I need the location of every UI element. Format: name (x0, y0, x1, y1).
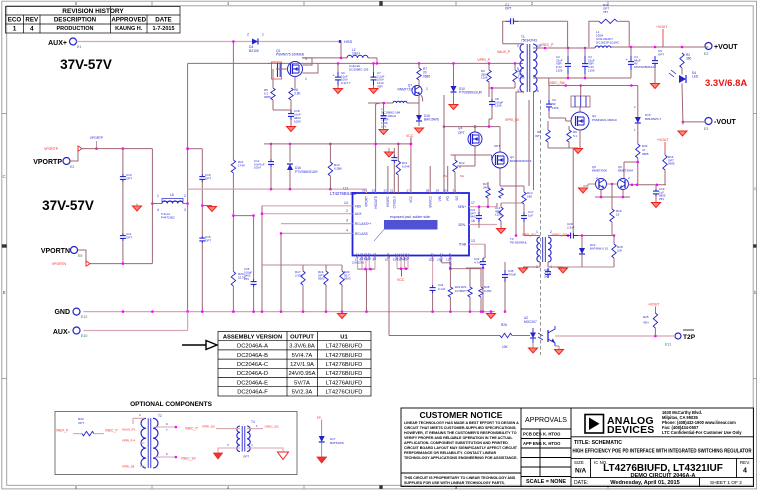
svg-text:3.3K: 3.3K (294, 92, 301, 96)
svg-text:R25: R25 (643, 315, 649, 319)
svg-text:5V/4.7A: 5V/4.7A (292, 353, 313, 359)
svg-text:10: 10 (385, 258, 389, 262)
svg-text:4: 4 (30, 26, 34, 33)
svg-text:6.04K: 6.04K (402, 164, 410, 168)
svg-text:SIZE: SIZE (574, 460, 584, 465)
svg-text:+VOUT: +VOUT (656, 25, 667, 29)
svg-text:25V: 25V (244, 277, 249, 281)
svg-text:LT4276BIUFD: LT4276BIUFD (330, 191, 356, 196)
svg-text:16: 16 (471, 219, 475, 223)
svg-text:2: 2 (247, 33, 249, 37)
svg-text:0402: 0402 (470, 215, 477, 219)
svg-text:VPORTN: VPORTN (41, 248, 70, 255)
svg-text:E9: E9 (78, 254, 82, 258)
svg-text:DO1988C-103: DO1988C-103 (349, 67, 369, 71)
svg-text:VPRI_P: VPRI_P (477, 58, 490, 62)
svg-text:DC2046A-B: DC2046A-B (237, 353, 268, 359)
svg-text:E10: E10 (81, 334, 87, 338)
svg-text:OPT: OPT (494, 144, 500, 148)
svg-text:T2: T2 (158, 414, 162, 418)
svg-text:LTC Confidential-For Customer: LTC Confidential-For Customer Use Only (662, 430, 742, 435)
svg-text:LT4276AIUFD: LT4276AIUFD (326, 380, 363, 386)
svg-text:PG: PG (446, 195, 450, 200)
svg-text:DC2046A-E: DC2046A-E (237, 380, 268, 386)
svg-text:SHEET 1 OF 2: SHEET 1 OF 2 (710, 480, 742, 486)
svg-text:17: 17 (471, 201, 475, 205)
svg-text:APPLICATION. COMPONENT SUBSTI: APPLICATION. COMPONENT SUBSTITUTION AND … (404, 441, 508, 445)
svg-text:T2P: T2P (683, 334, 696, 341)
svg-text:VCC: VCC (406, 134, 414, 138)
svg-text:6.3x7.7: 6.3x7.7 (341, 81, 351, 85)
svg-text:VPORTP: VPORTP (44, 147, 59, 151)
svg-text:OPT: OPT (505, 7, 512, 11)
svg-text:VPRI_SG: VPRI_SG (202, 425, 216, 429)
svg-text:E1: E1 (77, 45, 81, 49)
svg-text:VPORTN: VPORTN (52, 262, 67, 266)
svg-text:1206: 1206 (495, 104, 502, 108)
svg-text:E3: E3 (704, 127, 708, 131)
svg-text:5.1: 5.1 (573, 134, 577, 138)
svg-text:PE-65099NL: PE-65099NL (510, 240, 528, 244)
svg-text:+VOUT: +VOUT (648, 303, 659, 307)
svg-text:BSZ900N20NS3: BSZ900N20NS3 (510, 159, 532, 163)
svg-text:1: 1 (13, 26, 17, 33)
svg-text:9.25K: 9.25K (484, 289, 492, 293)
svg-text:THIS CIRCUIT IS PROPRIETARY TO: THIS CIRCUIT IS PROPRIETARY TO LINEAR TE… (404, 476, 516, 480)
svg-text:E2: E2 (70, 165, 74, 169)
svg-text:APPROVALS: APPROVALS (525, 417, 567, 424)
svg-text:C: C (3, 174, 6, 179)
svg-text:1206: 1206 (552, 106, 559, 110)
svg-text:ITHB: ITHB (459, 243, 466, 247)
svg-text:Wednesday, April 01, 2015: Wednesday, April 01, 2015 (610, 480, 680, 486)
svg-text:22: 22 (384, 189, 388, 193)
svg-text:LINEAR TECHNOLOGY HAS MADE A B: LINEAR TECHNOLOGY HAS MADE A BEST EFFORT… (404, 421, 519, 425)
svg-text:K. HTOO: K. HTOO (543, 441, 561, 446)
svg-text:LT4276CIUFD: LT4276CIUFD (326, 390, 363, 396)
svg-text:24V/0.95A: 24V/0.95A (288, 371, 315, 377)
svg-text:OPT: OPT (461, 289, 467, 293)
svg-text:1-7-2015: 1-7-2015 (152, 26, 174, 32)
svg-text:R26: R26 (501, 323, 507, 327)
svg-text:c: c (754, 186, 756, 191)
svg-text:360: 360 (686, 57, 692, 61)
svg-text:-VOUT: -VOUT (714, 119, 737, 126)
svg-text:VCC: VCC (397, 278, 405, 282)
svg-text:VAUX_P1: VAUX_P1 (122, 428, 136, 432)
svg-text:CIRCUIT BOARD LAYOUT MAY SIGNI: CIRCUIT BOARD LAYOUT MAY SIGNIFICANTLY A… (404, 446, 518, 450)
svg-text:DC2046A-A: DC2046A-A (237, 344, 268, 350)
svg-text:15: 15 (437, 258, 441, 262)
svg-text:OPT: OPT (205, 238, 211, 242)
svg-text:1206: 1206 (588, 68, 595, 72)
svg-text:LT4276BIUFD: LT4276BIUFD (326, 371, 363, 377)
svg-text:3.3V/6.8A: 3.3V/6.8A (705, 78, 747, 89)
svg-text:0685: 0685 (642, 152, 649, 156)
svg-text:VPORT: VPORT (365, 196, 369, 207)
svg-text:PSMN075-100MSB: PSMN075-100MSB (276, 53, 304, 57)
svg-text:REV: REV (25, 17, 39, 24)
svg-text:3: 3 (184, 208, 186, 212)
svg-text:SUPPLIED FOR USE WITH LINEAR T: SUPPLIED FOR USE WITH LINEAR TECHNOLOGY … (404, 481, 505, 485)
svg-text:30: 30 (443, 189, 447, 193)
svg-text:2.2nF: 2.2nF (567, 225, 575, 229)
svg-text:L5: L5 (170, 193, 174, 197)
svg-text:0.1uF: 0.1uF (438, 287, 446, 291)
svg-text:14: 14 (344, 201, 348, 205)
svg-text:VERIFY PROPER AND RELIABLE OPE: VERIFY PROPER AND RELIABLE OPERATION IN … (404, 436, 513, 440)
svg-text:BAT46W,U 15: BAT46W,U 15 (590, 246, 608, 250)
svg-text:21: 21 (390, 189, 394, 193)
svg-text:E2: E2 (704, 52, 708, 56)
svg-text:SCALE = NONE: SCALE = NONE (526, 479, 566, 485)
svg-text:DATE:: DATE: (574, 480, 588, 486)
svg-text:5V/7A: 5V/7A (294, 380, 310, 386)
svg-text:RCLASS: RCLASS (355, 232, 368, 236)
svg-text:31: 31 (453, 189, 457, 193)
svg-text:0685: 0685 (423, 74, 430, 78)
svg-text:VSEC_P: VSEC_P (105, 429, 118, 433)
svg-text:REVISION HISTORY: REVISION HISTORY (62, 8, 124, 15)
svg-text:exposed pad, solder side: exposed pad, solder side (390, 215, 430, 219)
svg-text:CIRCUIT THAT MEETS CUSTOMER-SU: CIRCUIT THAT MEETS CUSTOMER-SUPPLIED SPE… (404, 426, 516, 430)
svg-text:TITLE: SCHEMATIC: TITLE: SCHEMATIC (574, 440, 622, 446)
svg-text:E12: E12 (81, 315, 87, 319)
svg-text:TECHNOLOGY APPLICATIONS ENGINE: TECHNOLOGY APPLICATIONS ENGINEERING FOR … (404, 456, 518, 460)
svg-text:PERFORMANCE OR RELIABILITY. C: PERFORMANCE OR RELIABILITY. CONTACT LINE… (404, 451, 497, 455)
svg-text:+VOUT: +VOUT (657, 138, 668, 142)
svg-text:3: 3 (305, 57, 307, 61)
svg-text:+VOUT: +VOUT (714, 44, 738, 51)
svg-text:1: 1 (536, 230, 538, 234)
svg-text:AUX+: AUX+ (48, 40, 67, 47)
svg-text:15: 15 (616, 212, 620, 216)
svg-text:37V-57V: 37V-57V (60, 57, 112, 72)
svg-text:MMBT3906: MMBT3906 (592, 168, 607, 172)
svg-text:ECO: ECO (8, 17, 22, 24)
svg-text:OPT: OPT (205, 176, 211, 180)
svg-text:OUTPUT: OUTPUT (290, 334, 314, 340)
svg-text:VSEC_P: VSEC_P (185, 427, 198, 431)
svg-text:0402: 0402 (483, 185, 490, 189)
svg-text:OPT: OPT (78, 421, 84, 425)
svg-text:OPT: OPT (126, 176, 132, 180)
svg-text:BAV19WS: BAV19WS (424, 118, 439, 122)
svg-text:2: 2 (346, 209, 348, 213)
svg-text:10K: 10K (617, 248, 622, 252)
svg-text:3: 3 (346, 219, 348, 223)
svg-text:APP ENG: APP ENG (523, 441, 542, 446)
svg-text:0603: 0603 (344, 277, 351, 281)
svg-text:4: 4 (157, 208, 159, 212)
svg-text:25: 25 (372, 189, 376, 193)
svg-text:6.2BK: 6.2BK (334, 166, 342, 170)
svg-text:B: B (3, 290, 6, 295)
svg-text:HIGH EFFICIENCY POE PD INTERFA: HIGH EFFICIENCY POE PD INTERFACE WITH IN… (573, 449, 752, 455)
svg-text:FB9: FB9 (355, 204, 361, 208)
svg-text:OPT: OPT (458, 131, 465, 135)
svg-text:MOC207: MOC207 (524, 320, 537, 324)
svg-text:2: 2 (517, 44, 519, 48)
svg-text:OPTIONAL COMPONENTS: OPTIONAL COMPONENTS (130, 401, 213, 408)
svg-text:12V/1.9A: 12V/1.9A (290, 362, 314, 368)
svg-text:PCB DES: PCB DES (523, 432, 542, 437)
svg-text:3.3V/6.8A: 3.3V/6.8A (289, 344, 315, 350)
svg-text:LT4276BIUFD: LT4276BIUFD (326, 344, 363, 350)
svg-text:SEN+: SEN+ (458, 205, 467, 209)
svg-text:26: 26 (362, 189, 366, 193)
svg-text:E11: E11 (665, 343, 671, 347)
svg-text:REV.: REV. (740, 460, 750, 465)
svg-text:12: 12 (446, 258, 450, 262)
svg-text:29: 29 (436, 189, 440, 193)
svg-text:0603: 0603 (318, 277, 325, 281)
svg-text:CUSTOMER NOTICE: CUSTOMER NOTICE (420, 410, 503, 420)
svg-text:VIN: VIN (438, 195, 442, 201)
svg-text:DC2046A-D: DC2046A-D (237, 371, 268, 377)
svg-text:11: 11 (428, 258, 431, 262)
svg-text:KAUNG H.: KAUNG H. (115, 26, 143, 32)
svg-text:VSEC_P: VSEC_P (540, 43, 554, 47)
svg-text:AUX-: AUX- (53, 329, 71, 336)
svg-text:SG: SG (460, 174, 464, 178)
svg-text:DATE: DATE (155, 17, 171, 24)
svg-text:1206: 1206 (556, 68, 563, 72)
svg-text:4: 4 (743, 468, 747, 475)
svg-text:VPRI_S8: VPRI_S8 (122, 465, 135, 469)
svg-text:DEMO CIRCUIT 2046A-A: DEMO CIRCUIT 2046A-A (631, 473, 696, 479)
svg-text:DC2046A-F: DC2046A-F (237, 390, 268, 396)
svg-text:1: 1 (305, 77, 307, 81)
svg-text:VSEC_SG: VSEC_SG (265, 425, 280, 429)
svg-text:DESCRIPTION: DESCRIPTION (54, 17, 97, 24)
svg-text:LT4276BIUFD: LT4276BIUFD (326, 362, 363, 368)
svg-text:SEN-: SEN- (458, 223, 466, 227)
svg-text:PSMN2R4-30MLD: PSMN2R4-30MLD (592, 118, 618, 122)
svg-text:HOWEVER, IT REMAINS THE CUSTOM: HOWEVER, IT REMAINS THE CUSTOMER'S RESPO… (404, 431, 517, 435)
svg-text:APPROVED: APPROVED (111, 17, 146, 24)
svg-text:1206: 1206 (481, 76, 488, 80)
svg-text:HSGATE: HSGATE (374, 196, 378, 209)
svg-text:B2100: B2100 (249, 49, 259, 53)
svg-text:LT4276BIUFD: LT4276BIUFD (326, 353, 363, 359)
svg-text:10K: 10K (502, 345, 509, 349)
svg-text:VAUX_P: VAUX_P (497, 50, 511, 54)
svg-text:DC2046A-C: DC2046A-C (237, 362, 268, 368)
svg-text:0685: 0685 (264, 95, 271, 99)
svg-text:750343743: 750343743 (521, 39, 537, 43)
svg-text:5V/2.3A: 5V/2.3A (292, 390, 313, 396)
svg-text:OPT: OPT (243, 455, 249, 459)
svg-text:AUX: AUX (355, 212, 362, 216)
svg-text:VPORTP: VPORTP (90, 136, 103, 140)
svg-text:37V-57V: 37V-57V (42, 198, 94, 213)
svg-text:1: 1 (426, 87, 428, 91)
svg-text:VSEC_SV: VSEC_SV (181, 457, 197, 461)
svg-text:SWVCC: SWVCC (428, 195, 432, 208)
svg-text:27: 27 (407, 189, 411, 193)
svg-text:VPRI_P 4: VPRI_P 4 (122, 439, 135, 443)
svg-text:P44T2002: P44T2002 (161, 215, 175, 219)
svg-text:PRODUCTION: PRODUCTION (57, 26, 94, 32)
svg-text:1: 1 (262, 33, 264, 37)
svg-text:VAUX_P: VAUX_P (56, 429, 68, 433)
svg-text:4.7nF: 4.7nF (474, 260, 482, 264)
svg-text:N/A: N/A (575, 468, 587, 475)
svg-text:MMBT3904: MMBT3904 (618, 168, 633, 172)
svg-text:OPT: OPT (126, 235, 132, 239)
svg-text:PTVS58GS1UR: PTVS58GS1UR (459, 91, 483, 95)
svg-text:GND: GND (54, 309, 70, 316)
svg-text:1uF: 1uF (528, 213, 533, 217)
svg-text:#SVPA68M4AA: #SVPA68M4AA (634, 65, 654, 69)
svg-text:43N: 43N (643, 321, 649, 325)
svg-text:6: 6 (537, 89, 539, 93)
svg-text:HSSRC: HSSRC (386, 195, 390, 207)
svg-text:DEVICES: DEVICES (607, 424, 655, 436)
svg-text:100V: 100V (254, 166, 261, 170)
svg-text:VSEC_SW: VSEC_SW (549, 81, 565, 85)
svg-text:180: 180 (527, 194, 532, 198)
svg-text:25V: 25V (659, 197, 664, 201)
svg-text:475uF: 475uF (508, 272, 516, 276)
svg-text:CFSDLY: CFSDLY (393, 195, 397, 208)
svg-text:5: 5 (517, 67, 519, 71)
svg-text:2: 2 (184, 194, 186, 198)
svg-text:OPT: OPT (658, 52, 664, 56)
svg-text:E8: E8 (317, 416, 321, 420)
svg-text:22N322N3: 22N322N3 (352, 262, 365, 265)
svg-text:28: 28 (426, 189, 430, 193)
svg-text:0685: 0685 (668, 162, 675, 166)
svg-text:HSS: HSS (344, 39, 353, 44)
svg-text:RNMT722: RNMT722 (397, 88, 412, 92)
svg-text:BAT54WS: BAT54WS (330, 441, 344, 445)
svg-text:ASSEMBLY VERSION: ASSEMBLY VERSION (223, 334, 282, 340)
svg-text:2KV: 2KV (544, 275, 550, 279)
svg-text:PTVS58VS1UR: PTVS58VS1UR (295, 170, 318, 174)
svg-text:B0540WS-7: B0540WS-7 (645, 117, 662, 121)
svg-text:10uH: 10uH (352, 52, 360, 56)
svg-text:VCC: VCC (409, 195, 413, 202)
svg-text:LED: LED (692, 75, 699, 79)
svg-text:RCLASS++: RCLASS++ (355, 222, 372, 226)
svg-text:2.05K: 2.05K (295, 273, 303, 277)
svg-text:DC1813P-101HC: DC1813P-101HC (596, 40, 620, 44)
svg-text:13: 13 (471, 239, 475, 243)
svg-text:100V: 100V (294, 119, 301, 123)
svg-text:T4: T4 (251, 420, 255, 424)
svg-text:787: 787 (603, 10, 608, 14)
svg-text:PG: PG (443, 174, 447, 178)
svg-text:X5R: X5R (377, 84, 383, 88)
svg-text:U1: U1 (340, 334, 348, 340)
svg-text:1: 1 (157, 194, 159, 198)
svg-text:SG: SG (455, 195, 459, 200)
svg-text:4: 4 (346, 229, 348, 233)
svg-text:VPORTP: VPORTP (33, 159, 62, 166)
svg-text:35: 35 (404, 258, 408, 262)
svg-text:174K: 174K (238, 163, 245, 167)
svg-text:K. HTOO: K. HTOO (543, 432, 561, 437)
svg-text:VPRI_SV: VPRI_SV (505, 118, 520, 122)
